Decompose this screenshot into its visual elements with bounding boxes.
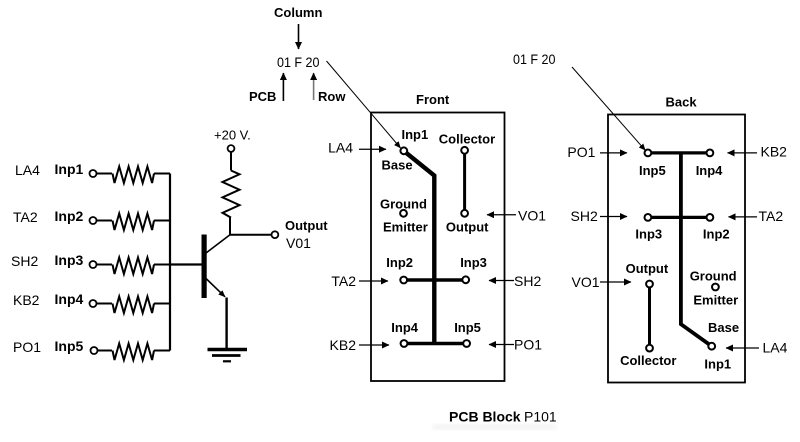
wire arrow TA2 to back [729, 216, 758, 218]
resistor R3 [113, 258, 155, 275]
wire arrow VO1 to front [487, 214, 516, 216]
svg-text:TA2: TA2 [759, 208, 784, 224]
svg-text:Emitter: Emitter [693, 293, 738, 308]
wire emitter to ground [225, 298, 227, 349]
node TA2 input terminal row 2 [13, 208, 97, 225]
transistor Q1 base bar [202, 235, 207, 299]
svg-text:Emitter: Emitter [383, 220, 428, 235]
wire row2 to bus [154, 220, 170, 222]
svg-text:PCB: PCB [249, 89, 276, 104]
svg-text:SH2: SH2 [571, 208, 598, 224]
wire: base wire [170, 263, 202, 265]
pad Back Inp4 [696, 150, 723, 179]
pad Front Inp3 [460, 255, 487, 283]
svg-text:Output: Output [446, 220, 489, 235]
pad Front Inp2 [386, 255, 413, 283]
trace: Front Inp4 to Inp5 [404, 342, 467, 345]
svg-text:PO1: PO1 [13, 339, 41, 355]
wire row5 to resistor [98, 350, 112, 352]
wire row3 to bus [154, 264, 170, 266]
svg-text:Inp2: Inp2 [703, 227, 730, 242]
trace: Front collector to output [463, 150, 466, 213]
svg-text:TA2: TA2 [331, 273, 356, 289]
Front PCB block outline [371, 113, 505, 382]
wire row3 to resistor [97, 264, 112, 266]
svg-text:Inp1: Inp1 [55, 161, 84, 177]
node KB2 input terminal row 4 [13, 291, 97, 308]
trace: Front Inp1 pad diagonal [405, 152, 435, 344]
svg-text:Output: Output [626, 261, 669, 276]
node SH2 input terminal row 3 [11, 252, 97, 269]
svg-text:TA2: TA2 [13, 209, 38, 225]
pad Front Inp5 [454, 320, 481, 347]
wire output [230, 234, 271, 236]
pad Front Collector [439, 132, 495, 154]
pad Back Inp2 [703, 214, 730, 242]
svg-text:Inp5: Inp5 [639, 163, 666, 178]
wire: leader from 01 F 20 to Front Inp1 pad [327, 61, 401, 148]
svg-text:Inp2: Inp2 [55, 208, 84, 224]
svg-text:01 F 20: 01 F 20 [513, 51, 556, 67]
wire row1 to resistor [97, 173, 112, 175]
wire arrow PO1 to back [600, 152, 627, 154]
wire arrow PO1 to front [489, 344, 514, 346]
wire row5 to bus [154, 350, 170, 352]
transistor Q1 emitter lead with arrow [206, 279, 225, 297]
svg-text:SH2: SH2 [11, 253, 38, 269]
svg-text:LA4: LA4 [763, 340, 788, 356]
svg-text:Base: Base [708, 320, 739, 335]
wire: PCB pointer arrow (up) [282, 73, 284, 101]
resistor R2 [113, 214, 155, 231]
svg-text:Back: Back [666, 95, 698, 110]
wire: Row pointer arrow (up) [313, 73, 315, 100]
wire: Column pointer arrow (down) [298, 24, 300, 49]
pad Back Inp3 [635, 214, 662, 242]
svg-text:01 F 20: 01 F 20 [277, 54, 320, 70]
pad Front Inp4 [391, 320, 418, 347]
resistor R4 [113, 297, 155, 314]
svg-text:Inp1: Inp1 [402, 127, 429, 142]
pad Back Output [626, 261, 669, 287]
wire arrow SH2 to back [600, 216, 627, 218]
wire arrow KB2 to front [359, 344, 389, 346]
resistor R6 collector load [223, 171, 240, 218]
wire row1 to bus [154, 173, 170, 175]
trace: Back Inp3 to Inp2 [648, 216, 710, 219]
svg-text:Inp2: Inp2 [386, 255, 413, 270]
svg-text:P101: P101 [524, 409, 557, 425]
svg-text:PO1: PO1 [514, 337, 542, 353]
wire arrow SH2 to front [489, 280, 514, 282]
power +20 V. [214, 128, 251, 152]
svg-text:PCB Block: PCB Block [449, 409, 521, 425]
wire: input bus vertical [169, 174, 171, 351]
svg-text:PO1: PO1 [567, 144, 595, 160]
pad Back Inp1 [704, 320, 739, 372]
wire arrow TA2 to front [359, 280, 388, 282]
resistor R1 [113, 167, 155, 184]
wire resistor to collector node [229, 218, 231, 235]
wire arrow VO1 to back [600, 281, 631, 283]
svg-text:LA4: LA4 [328, 140, 353, 156]
svg-text:Inp5: Inp5 [454, 320, 481, 335]
wire supply to resistor [230, 152, 232, 170]
pad Back Inp5 [639, 150, 666, 179]
node Output V01 terminal [272, 218, 329, 251]
wire arrow KB2 to back [728, 152, 758, 154]
svg-text:Inp5: Inp5 [55, 338, 84, 354]
svg-text:Inp4: Inp4 [55, 291, 84, 307]
svg-text:Output: Output [285, 218, 328, 233]
svg-text:KB2: KB2 [761, 144, 788, 160]
pad Front Output [446, 210, 489, 235]
wire: leader from 01 F 20 to Back Inp5 pad [572, 67, 645, 150]
Back PCB block outline [608, 115, 745, 383]
svg-text:Column: Column [274, 5, 322, 20]
node PO1 input terminal row 5 [13, 338, 98, 355]
trace: Back center vertical with diagonal to Inp1 [681, 153, 712, 346]
ground [208, 350, 248, 362]
svg-text:Inp3: Inp3 [55, 252, 84, 268]
wire arrow LA4 to front [359, 148, 386, 150]
svg-text:Inp3: Inp3 [635, 227, 662, 242]
svg-text:KB2: KB2 [13, 292, 40, 308]
svg-text:Inp1: Inp1 [704, 357, 731, 372]
node LA4 input terminal row 1 [15, 161, 97, 178]
svg-text:KB2: KB2 [330, 337, 357, 353]
label PCB Block P101 [449, 409, 557, 425]
transistor Q1 collector lead [206, 235, 230, 253]
wire row4 to bus [154, 303, 170, 305]
trace: Back Output to Collector [648, 284, 651, 348]
trace: Front Inp2 to Inp3 [404, 278, 466, 281]
svg-text:V01: V01 [286, 235, 311, 251]
wire row4 to resistor [97, 303, 112, 305]
svg-text:SH2: SH2 [514, 273, 541, 289]
svg-text:VO1: VO1 [518, 208, 546, 224]
svg-text:Collector: Collector [620, 353, 676, 368]
pad Front Inp1 [382, 127, 429, 173]
svg-text:+20 V.: +20 V. [214, 128, 251, 143]
svg-text:Inp4: Inp4 [391, 320, 418, 335]
svg-text:Inp3: Inp3 [460, 255, 487, 270]
svg-text:Collector: Collector [439, 132, 495, 147]
pad Back Collector [620, 345, 676, 368]
svg-text:Front: Front [416, 92, 450, 107]
svg-text:Row: Row [318, 89, 346, 104]
svg-text:VO1: VO1 [572, 274, 600, 290]
svg-text:LA4: LA4 [15, 162, 40, 178]
trace: Back Inp5 to Inp4 [648, 151, 710, 154]
pad Back Ground/Emitter [690, 269, 738, 308]
wire row2 to resistor [97, 220, 112, 222]
wire arrow LA4 to back [726, 347, 759, 349]
svg-text:Base: Base [382, 158, 413, 173]
svg-text:Ground: Ground [690, 269, 737, 284]
pad Front Ground/Emitter [380, 197, 428, 235]
faint print remnant [432, 424, 557, 430]
resistor R5 [113, 344, 155, 361]
svg-text:Inp4: Inp4 [696, 163, 723, 178]
